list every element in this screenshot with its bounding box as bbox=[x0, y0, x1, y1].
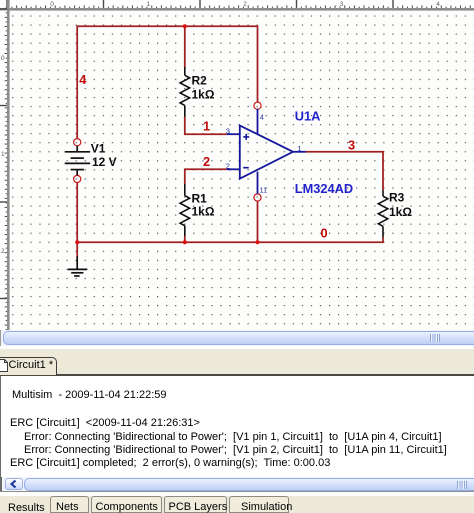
op-amp plus sign bbox=[243, 134, 249, 140]
svg-text:0: 0 bbox=[321, 226, 328, 241]
wire R2 branch from top rail bbox=[184, 26, 186, 67]
svg-text:0: 0 bbox=[1, 55, 5, 62]
horizontal ruler bbox=[0, 0, 474, 11]
svg-text:4: 4 bbox=[79, 72, 87, 87]
ground bbox=[68, 257, 88, 277]
svg-text:R2: R2 bbox=[192, 74, 208, 88]
svg-text:LM324AD: LM324AD bbox=[295, 181, 353, 196]
svg-text:1: 1 bbox=[1, 151, 5, 158]
svg-text:12 V: 12 V bbox=[92, 155, 117, 169]
ERC marker V1 pin 1 bbox=[74, 139, 81, 146]
wire bottom rail net 0 bbox=[77, 241, 383, 243]
wire R2 bottom to op-amp pin3 (net 1) bbox=[185, 116, 227, 134]
resistor R3 bbox=[378, 190, 388, 237]
svg-text:1kΩ: 1kΩ bbox=[192, 88, 215, 102]
op-amp minus sign bbox=[243, 167, 249, 169]
wire top rail net 4 bbox=[77, 25, 257, 27]
vertical ruler bbox=[0, 0, 10, 330]
svg-text:4: 4 bbox=[260, 113, 264, 122]
svg-text:V1: V1 bbox=[91, 141, 106, 155]
svg-text:U1A: U1A bbox=[295, 109, 321, 124]
op-amp U1A triangle bbox=[227, 109, 306, 194]
svg-text:0: 0 bbox=[50, 1, 54, 8]
wire R3 bottom to rail bbox=[382, 237, 384, 243]
svg-text:1: 1 bbox=[147, 1, 151, 8]
battery V1 bbox=[65, 146, 90, 175]
svg-text:1: 1 bbox=[203, 119, 210, 134]
wire R1 bottom to rail bbox=[184, 236, 186, 242]
svg-text:R3: R3 bbox=[389, 191, 405, 205]
wire U1A pin4 from top rail bbox=[257, 25, 259, 101]
canvas background bbox=[0, 0, 474, 330]
svg-text:2: 2 bbox=[1, 248, 5, 255]
ERC marker U1A pin 4 bbox=[254, 102, 261, 109]
svg-text:2: 2 bbox=[226, 162, 230, 171]
svg-text:1kΩ: 1kΩ bbox=[389, 205, 412, 219]
ERC marker U1A pin 11 bbox=[254, 194, 261, 201]
svg-text:3: 3 bbox=[226, 126, 230, 135]
wire V1 top branch bbox=[76, 25, 78, 138]
resistor R1 bbox=[180, 184, 190, 236]
junction V1 / ground bbox=[75, 240, 79, 244]
wire V1 bottom to ground junction bbox=[76, 182, 78, 257]
wire net 2 to R1 top bbox=[185, 169, 227, 184]
svg-text:3: 3 bbox=[340, 1, 344, 8]
junction top rail / R2 bbox=[183, 24, 187, 28]
svg-text:3: 3 bbox=[348, 138, 355, 153]
svg-text:11: 11 bbox=[259, 185, 267, 194]
junction pin11 / rail bbox=[256, 240, 260, 244]
junction R1 / rail bbox=[183, 240, 187, 244]
wire output net 3 to R3 bbox=[306, 152, 383, 191]
svg-text:4: 4 bbox=[436, 1, 440, 8]
svg-text:2: 2 bbox=[243, 1, 247, 8]
svg-text:1: 1 bbox=[297, 144, 301, 153]
wire U1A pin11 to bottom rail bbox=[257, 201, 259, 242]
svg-text:R1: R1 bbox=[192, 192, 208, 206]
svg-text:2: 2 bbox=[203, 154, 210, 169]
ERC marker V1 pin 2 bbox=[74, 175, 81, 182]
svg-text:1kΩ: 1kΩ bbox=[192, 205, 215, 219]
resistor R2 bbox=[180, 67, 190, 117]
